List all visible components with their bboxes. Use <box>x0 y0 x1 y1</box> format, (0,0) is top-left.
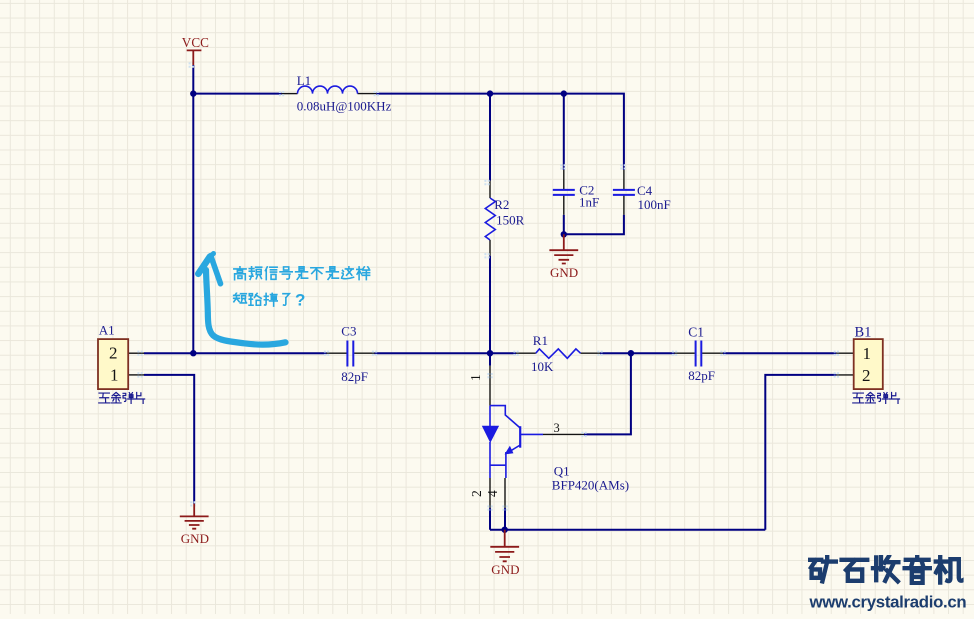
pin L1-1 <box>282 93 298 95</box>
pin A1-2 <box>128 352 144 354</box>
wire main rail C3 to R1 <box>375 352 517 354</box>
connector A1 name: 五金弹片 <box>99 392 145 403</box>
junction C2/C4 gnd node <box>561 231 567 237</box>
wire R2 bottom to main rail <box>489 256 491 354</box>
svg-text:GND: GND <box>550 265 578 280</box>
COMPONENT BODIES (blue) <box>298 86 702 478</box>
svg-text:150R: 150R <box>496 213 524 228</box>
pin Q1-4 <box>504 478 506 508</box>
svg-text:GND: GND <box>491 562 519 577</box>
svg-text:2: 2 <box>862 366 871 385</box>
junction C2 top node <box>561 90 567 96</box>
pin R1-2 <box>581 352 601 354</box>
PINS (black) <box>128 94 854 508</box>
pin Q1-3 <box>543 433 584 435</box>
hand-drawn blue arrow <box>198 254 285 345</box>
ground symbol under C2 <box>549 234 578 263</box>
inductor L1 <box>298 86 358 93</box>
pin C4-1 <box>623 170 625 189</box>
svg-text:3: 3 <box>554 421 560 435</box>
pin C4-2 <box>623 195 625 214</box>
pin A1-1 <box>128 374 144 376</box>
svg-text:R1: R1 <box>533 333 548 348</box>
pin Q1-2 <box>489 478 491 508</box>
pin Q1-1 <box>489 366 491 406</box>
pin B1-2 <box>836 374 853 376</box>
junction VCC/L1 node <box>190 90 196 96</box>
watermark big text: 矿石收音机 <box>809 556 963 584</box>
svg-text:1: 1 <box>863 344 872 363</box>
wire Q1 emitter pins to bottom rail <box>490 508 505 530</box>
annotation text line 1: 高频信号是不是这样 <box>234 266 370 280</box>
svg-text:0.08uH@100KHz: 0.08uH@100KHz <box>297 98 392 113</box>
svg-text:1: 1 <box>110 366 119 385</box>
svg-text:1nF: 1nF <box>579 195 599 210</box>
svg-text:BFP420(AMs): BFP420(AMs) <box>552 477 629 492</box>
wire main rail R1 to C1 junction <box>600 352 675 354</box>
svg-text:www.crystalradio.cn: www.crystalradio.cn <box>809 592 967 611</box>
connector A1 box <box>98 339 128 389</box>
svg-text:2: 2 <box>469 490 484 497</box>
pin C3-2 <box>354 352 374 354</box>
pin C1-1 <box>675 352 695 354</box>
wire B1 pin2 down <box>765 375 836 530</box>
wire A1 pin1 to gnd <box>144 375 194 504</box>
wire R1 junction down to Q1 pin3 <box>584 353 631 434</box>
svg-text:?: ? <box>295 291 305 310</box>
junction emitter gnd node <box>502 527 508 533</box>
capacitor C2 plates <box>553 190 575 195</box>
svg-text:1: 1 <box>468 374 483 381</box>
wire C2 branch top <box>563 94 565 170</box>
wire VCC stem to top rail <box>192 65 194 94</box>
junction R1/C1 node <box>628 350 634 356</box>
svg-text:Q1: Q1 <box>554 464 570 479</box>
pin R2-2 <box>489 240 491 256</box>
wire bottom rail <box>490 529 765 531</box>
pin hotspot ticks <box>137 62 839 510</box>
pin C2-1 <box>563 170 565 189</box>
svg-text:R2: R2 <box>494 197 509 212</box>
pin B1-1 <box>836 352 853 354</box>
pin C2-2 <box>563 195 565 214</box>
svg-text:82pF: 82pF <box>688 368 715 383</box>
annotation text line 2: 短路掉了？ <box>234 293 290 306</box>
wire main rail C1 to B1 <box>723 352 836 354</box>
transistor Q1 body <box>490 406 520 428</box>
pin L1-2 <box>358 93 377 95</box>
svg-text:100nF: 100nF <box>638 197 671 212</box>
pin C1-2 <box>702 352 723 354</box>
wire C4 bottom to gnd junction <box>564 215 624 235</box>
capacitor C1 plates <box>696 341 702 367</box>
svg-text:4: 4 <box>485 490 500 497</box>
capacitor C3 plates <box>347 341 353 367</box>
svg-text:GND: GND <box>181 531 209 546</box>
capacitor C4 plates <box>613 190 635 195</box>
svg-text:L1: L1 <box>297 73 311 88</box>
svg-text:A1: A1 <box>99 322 115 337</box>
wire top rail left of L1 <box>193 93 281 95</box>
pin R1-1 <box>516 352 536 354</box>
connector B1 name: 五金弹片 <box>853 392 900 403</box>
wire top rail right of L1 to C4 corner <box>376 94 624 170</box>
resistor R2 <box>485 198 495 240</box>
svg-text:VCC: VCC <box>182 35 209 50</box>
svg-text:10K: 10K <box>531 359 554 374</box>
junction A1 input node <box>190 350 196 356</box>
svg-text:2: 2 <box>109 344 118 363</box>
svg-text:C3: C3 <box>341 323 356 338</box>
wire VCC column down to main rail <box>192 94 194 354</box>
wire C2 bottom to gnd junction <box>563 215 565 235</box>
junction R2/base node <box>487 350 493 356</box>
VCC power symbol <box>187 50 202 65</box>
svg-text:C1: C1 <box>688 325 704 340</box>
transistor Q1 big triangle <box>483 426 499 442</box>
resistor R1 <box>536 349 581 358</box>
ground symbol under Q1 <box>490 530 519 562</box>
connector B1 box <box>854 339 883 389</box>
junction L1/R2 node <box>487 90 493 96</box>
wire main rail A1 to C3 <box>144 352 327 354</box>
pin R2-1 <box>489 181 491 199</box>
wire R2 top from rail <box>489 94 491 181</box>
svg-text:B1: B1 <box>855 325 872 341</box>
svg-text:82pF: 82pF <box>341 369 368 384</box>
wire Q1 base from rail <box>489 353 491 365</box>
transistor Q1 emitter arrowhead <box>506 447 513 453</box>
pin C3-1 <box>327 352 347 354</box>
ground symbol under A1 <box>180 504 209 529</box>
